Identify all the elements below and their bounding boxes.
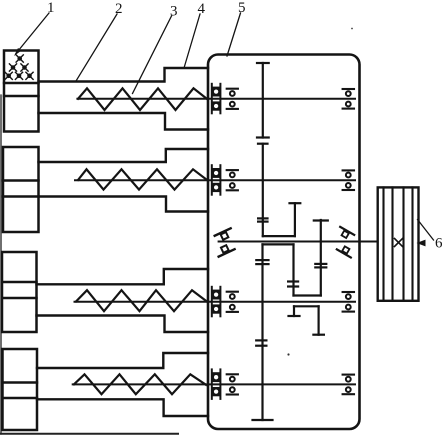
gear line B upper	[290, 203, 301, 236]
input arrow at coupling	[417, 240, 426, 247]
gear G2 top cap	[258, 143, 268, 145]
hopper 1 divider upper	[4, 82, 39, 84]
right bearing shaft 1	[343, 89, 354, 109]
hopper 3 divider lower	[2, 297, 37, 299]
gear G1 on shaft 1	[257, 63, 269, 138]
screw conveyor helix 2	[78, 169, 208, 189]
trough 4 lower wall with flange step	[37, 399, 208, 416]
trough 2 upper wall with flange step	[39, 149, 209, 162]
gear line B lower leg	[292, 244, 294, 295]
trough 3 lower wall with flange step	[37, 316, 209, 333]
intermediate gear line A upper	[262, 144, 264, 236]
X mark on coupling	[395, 239, 403, 247]
sliding gear bars on B lower	[288, 282, 298, 287]
hopper 4 divider lower	[3, 397, 38, 399]
coupling block 6 outer	[378, 187, 419, 300]
gear line A bottom cap	[253, 419, 273, 421]
speckle dot	[351, 28, 353, 30]
hopper 3 divider upper	[2, 281, 37, 283]
screw conveyor helix 1	[78, 88, 208, 110]
speckle dot	[287, 353, 289, 355]
leader line 4	[184, 14, 200, 68]
right bearing shaft 4	[343, 375, 354, 395]
hopper 2 divider upper	[3, 179, 39, 181]
input shaft left bearing upper	[215, 228, 234, 242]
trough 1 lower wall with flange step	[39, 113, 209, 130]
screw conveyor shaft 1	[77, 98, 355, 100]
hopper 4 divider upper	[3, 381, 38, 383]
gear pair under shaft 3	[289, 306, 324, 334]
bracket B to C	[294, 294, 321, 296]
hopper 4 box	[3, 349, 38, 430]
scan border bottom edge	[0, 433, 178, 435]
wall bearing shaft 4	[212, 369, 221, 399]
leader line 1	[16, 13, 49, 54]
hopper 2 divider lower	[3, 195, 39, 197]
gearbox housing 5	[208, 55, 360, 430]
leader line 2	[76, 14, 117, 81]
screw conveyor shaft 4	[73, 383, 355, 385]
hopper 2 box	[3, 147, 39, 232]
scan border left edge	[0, 95, 2, 434]
inner bearing shaft 1	[227, 89, 238, 109]
screw conveyor helix 3	[76, 290, 208, 311]
input shaft	[219, 241, 378, 243]
trough 4 upper wall with flange step	[37, 353, 208, 368]
inner bearing shaft 4	[227, 374, 238, 394]
input shaft right bearing upper	[337, 227, 354, 241]
trough 1 upper wall with flange step	[39, 68, 209, 82]
leader line 5	[227, 13, 241, 56]
right bearing shaft 3	[343, 292, 354, 312]
svg-text:4: 4	[198, 1, 206, 17]
leader arrowhead 1	[14, 48, 22, 56]
bracket A to B	[263, 235, 295, 237]
gear line C	[314, 220, 328, 296]
gear line A lower	[261, 244, 263, 420]
wall bearing shaft 3	[212, 287, 221, 317]
hopper 1 box	[4, 51, 39, 132]
sliding gear bars on A	[258, 218, 267, 221]
leader line 3	[133, 16, 172, 94]
right bearing shaft 2	[343, 170, 354, 190]
input shaft left bearing lower	[216, 243, 235, 257]
hopper 1 divider lower	[4, 95, 39, 97]
wall bearing shaft 1	[212, 84, 221, 114]
hopper 3 box	[2, 252, 37, 332]
screw conveyor helix 4	[74, 374, 206, 394]
trough 2 lower wall with flange step	[39, 197, 209, 212]
input shaft right bearing lower	[337, 244, 354, 258]
inner bearing shaft 2	[227, 170, 238, 190]
trough 3 upper wall with flange step	[37, 269, 209, 284]
inner bearing shaft 3	[227, 292, 238, 312]
svg-text:6: 6	[435, 236, 442, 252]
sliding gear bars on A lower	[256, 260, 268, 346]
lower bracket under input shaft	[263, 243, 294, 245]
screw conveyor shaft 3	[75, 301, 356, 303]
svg-text:5: 5	[238, 0, 246, 16]
wall bearing shaft 2	[212, 165, 221, 195]
screw conveyor shaft 2	[75, 179, 355, 181]
coupling block stripe lines	[384, 187, 413, 300]
material particles in hopper 1	[5, 55, 33, 80]
leader line 6	[418, 220, 434, 241]
